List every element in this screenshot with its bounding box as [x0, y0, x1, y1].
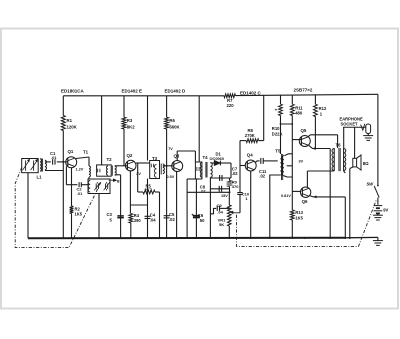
earphone jack plug mark [361, 124, 365, 130]
wire R1 to base node, down to ground [62, 131, 64, 171]
wire gang box down to ground bus [27, 173, 29, 239]
wire R11 branch [291, 95, 293, 104]
T4 secondary [210, 163, 212, 178]
resistor R2 [70, 206, 74, 214]
svg-text:2K7: 2K7 [144, 187, 152, 192]
svg-text:R12: R12 [319, 106, 327, 111]
bus junctions [62, 237, 64, 239]
wire battery to ground [377, 213, 379, 215]
transistor Q5 [299, 136, 310, 147]
wire Q6 collector up to T6 [306, 171, 308, 187]
potentiometer VR1 [228, 192, 230, 205]
svg-text:8Ω: 8Ω [363, 161, 369, 166]
svg-text:B: B [117, 179, 120, 183]
variable capacitor VC1 [25, 161, 27, 171]
T4 primary [200, 163, 202, 178]
svg-text:270K: 270K [245, 133, 255, 138]
svg-text:220: 220 [227, 103, 235, 108]
capacitor C6 electrolytic [195, 179, 197, 238]
wire L1 secondary to C1 [45, 161, 51, 163]
capacitor C4 [147, 205, 149, 238]
svg-text:R10: R10 [272, 126, 280, 131]
svg-text:1K5: 1K5 [75, 212, 83, 217]
wire R6 branch with C5 to ground [166, 96, 168, 117]
svg-text:8K2: 8K2 [127, 124, 135, 129]
T3 box winding [154, 165, 156, 178]
resistor R7 [224, 94, 236, 98]
battery 9V [374, 205, 383, 207]
svg-text:T5: T5 [275, 149, 281, 154]
transistor Q3 [172, 161, 183, 172]
capacitor C7 [219, 175, 221, 181]
T2 secondary [115, 166, 117, 175]
wire R10 branch [280, 95, 282, 104]
wire Q5 emitter return to ground bus [329, 149, 331, 239]
wire Q4 collector to T5 [255, 161, 256, 163]
wire T4 secondary return [209, 177, 211, 238]
wire socket contact to speaker [354, 127, 356, 158]
thermistor R10 [279, 104, 283, 115]
svg-text:1K5: 1K5 [295, 215, 303, 220]
wire detector right [230, 163, 232, 178]
wire R5 to ground [159, 192, 161, 238]
svg-text:Q4: Q4 [247, 153, 253, 158]
resistor R8 [263, 95, 265, 141]
T1 trimmer 1 [95, 184, 97, 190]
svg-text:Q2: Q2 [127, 153, 133, 158]
wire Q6 emitter return [344, 197, 346, 238]
svg-text:ED1402 E: ED1402 E [122, 89, 143, 94]
svg-text:T1: T1 [83, 150, 89, 155]
svg-text:R1: R1 [67, 118, 73, 123]
wire bus to T2 [101, 96, 103, 165]
svg-text:1.2V: 1.2V [76, 167, 84, 171]
wire T3 box bottom down [147, 179, 149, 206]
svg-text:.01: .01 [77, 192, 82, 196]
wire T5 secondary centre tap [287, 165, 293, 167]
wire T5 secondary bottom [284, 176, 292, 177]
wire detector lower rail [187, 191, 229, 193]
svg-text:560K: 560K [169, 124, 180, 129]
wire R5 riser [137, 163, 139, 192]
wire R10/R11 node [281, 123, 293, 125]
capacitor C2 [78, 182, 80, 187]
T2 box winding [106, 166, 108, 175]
ground earphone [363, 135, 373, 137]
resistor R1 [61, 116, 65, 131]
wire Q1 emitter down [71, 168, 73, 206]
capacitor C10 [239, 195, 241, 213]
wire C1 to Q1 base [57, 161, 68, 163]
svg-text:ED1402 C: ED1402 C [240, 90, 262, 95]
svg-text:0.5V: 0.5V [167, 175, 175, 179]
wire T1 box to ground [98, 194, 100, 239]
svg-text:.04: .04 [150, 217, 156, 222]
svg-text:T4: T4 [203, 155, 209, 160]
transistor Q6 [300, 187, 310, 197]
wire Q2 emitter down to R4 [129, 171, 131, 214]
wire T2 secondary return to C3 [115, 174, 121, 176]
resistor R4 [129, 214, 133, 224]
wire R3 branch [123, 96, 125, 117]
svg-text:50: 50 [200, 218, 205, 223]
capacitor C1 [52, 159, 54, 165]
ground bus end [377, 237, 379, 240]
volume wiper from C10 [233, 212, 240, 214]
earphone socket bar [343, 126, 366, 128]
wire T5 secondary top to bias [284, 154, 292, 156]
T2 box capacitor [97, 169, 99, 173]
svg-text:15V: 15V [221, 194, 228, 198]
wire T6 right bottom to ground bus [344, 171, 346, 173]
svg-text:R6: R6 [169, 118, 175, 123]
wire Q1 base down [65, 166, 67, 184]
svg-text:+: + [191, 213, 194, 218]
variable capacitor VC2 [33, 161, 35, 171]
wire Q3 emitter [176, 172, 178, 239]
svg-text:R3: R3 [127, 118, 133, 123]
svg-text:3V: 3V [299, 160, 304, 164]
transistor Q4 [245, 160, 256, 171]
wire L1 return [45, 170, 63, 172]
wire C8 row [210, 188, 229, 190]
svg-text:C2: C2 [77, 187, 83, 192]
svg-text:2SB77×2: 2SB77×2 [294, 87, 313, 92]
svg-text:120K: 120K [67, 125, 78, 130]
wire Q6 base stub [292, 190, 301, 192]
svg-text:1: 1 [245, 196, 248, 201]
wire Q5 collector to rail [308, 135, 310, 137]
gang link dashed [15, 168, 101, 248]
wire top supply bus [63, 95, 224, 97]
wire bias line down [291, 116, 293, 211]
transistor Q2 [125, 160, 136, 171]
resistor R11 [290, 104, 294, 115]
wire T4 box bottom [187, 178, 199, 180]
wire Q2 collector to T3 [136, 162, 150, 164]
wire bus to T4 [198, 96, 200, 162]
svg-text:.01: .01 [51, 155, 57, 160]
svg-text:.02: .02 [232, 171, 238, 176]
svg-text:5: 5 [110, 217, 113, 222]
wire switch to battery [377, 198, 379, 205]
svg-text:C9: C9 [217, 203, 223, 208]
speaker [353, 158, 357, 167]
T1 tuned box [88, 179, 110, 194]
diode D1 [210, 162, 214, 164]
wire speaker bottom return [350, 167, 353, 169]
wire Q4 emitter [250, 171, 252, 238]
wire R8 to Q4 base / C10 [239, 141, 241, 193]
wire R12 branch [314, 94, 316, 104]
svg-text:470: 470 [232, 184, 239, 189]
capacitor C3 electrolytic [117, 215, 124, 217]
svg-text:ED1402 D: ED1402 D [165, 89, 187, 94]
capacitor C9 [210, 208, 216, 213]
svg-text:T6: T6 [336, 143, 342, 148]
wire T3 secondary to Q3 base [163, 165, 174, 167]
resistor R13 [290, 210, 294, 220]
wire Q1 collector to T1 [76, 157, 89, 159]
volume/switch link dashed [237, 200, 377, 246]
ground battery [373, 214, 383, 216]
capacitor C8 [218, 186, 220, 192]
wire base line to T1 box with C2 [66, 184, 77, 186]
wire R4/C4 bracket [130, 204, 147, 206]
svg-text:Q1: Q1 [68, 149, 74, 154]
svg-text:+: + [275, 108, 278, 113]
svg-text:L1: L1 [37, 175, 43, 180]
wire bus to T3 [147, 96, 149, 161]
wire jack to ground [367, 134, 369, 136]
wire T2 secondary to Q2 base [115, 165, 128, 167]
wire socket contact to T6 [343, 127, 345, 148]
svg-text:.04: .04 [217, 209, 223, 214]
wire Q6 emitter [310, 196, 313, 197]
T1 trimmer 2 [105, 184, 107, 190]
svg-text:7V: 7V [168, 147, 173, 151]
resistor R5 [138, 191, 143, 193]
wire ground bus (bottom) [28, 237, 345, 239]
wire R1 branch [62, 96, 64, 116]
antenna coil L1 [40, 159, 42, 171]
svg-text:SOCKET: SOCKET [341, 122, 359, 127]
wire C7 row [210, 177, 231, 179]
svg-text:1: 1 [320, 111, 323, 116]
wire Q3 collector up to T4 [176, 151, 178, 161]
T1 box winding [88, 181, 90, 193]
resistor R6 [165, 117, 169, 129]
svg-text:390: 390 [134, 218, 142, 223]
svg-text:Q5: Q5 [301, 128, 307, 133]
svg-text:Q6: Q6 [302, 199, 308, 204]
wire top supply bus right [236, 94, 379, 95]
earphone jack body [366, 124, 371, 134]
capacitor C5 [164, 215, 170, 217]
svg-text:OC0060: OC0060 [210, 156, 225, 161]
svg-text:9V: 9V [383, 207, 388, 212]
capacitor C11 [260, 158, 262, 164]
T3 box capacitor [150, 164, 152, 168]
T3 secondary [160, 164, 162, 175]
transistor Q1 [66, 157, 77, 168]
resistor R12 [314, 104, 318, 116]
T2 core [111, 166, 113, 176]
svg-text:.02: .02 [259, 174, 265, 179]
svg-text:.02: .02 [169, 217, 175, 222]
resistor R3 [122, 117, 126, 129]
wire Q5 base stub [292, 139, 301, 141]
svg-text:2V: 2V [136, 172, 141, 176]
svg-text:SW: SW [366, 181, 374, 186]
wire T5 primary bottom return [270, 175, 281, 238]
wire right edge down to switch [377, 94, 379, 185]
svg-text:480: 480 [295, 111, 303, 116]
svg-text:5K: 5K [219, 222, 224, 227]
T4 core [205, 162, 207, 178]
svg-text:ED1801CA: ED1801CA [61, 89, 85, 94]
tuning gang box VC [22, 159, 39, 173]
node B arrow [109, 179, 114, 181]
svg-text:T2: T2 [107, 157, 113, 162]
svg-text:0.81V: 0.81V [281, 194, 291, 198]
resistor R9 [229, 178, 231, 181]
wire Q5 emitter [309, 145, 313, 148]
